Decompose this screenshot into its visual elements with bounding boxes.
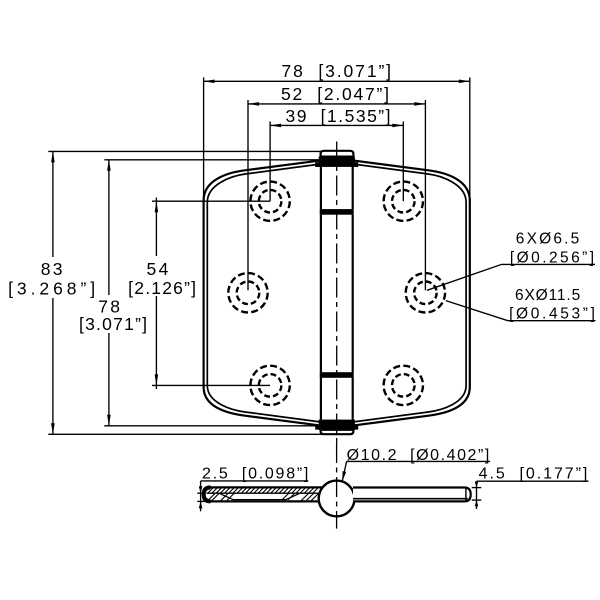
dim 78 width: right arrow	[459, 80, 470, 84]
side view left leaf rolled edge cap	[204, 487, 211, 501]
hinge pin left line	[320, 167, 322, 420]
knuckle bottom dark band	[319, 420, 355, 430]
left leaf outer outline	[204, 160, 322, 425]
hole top-left outer circle	[250, 182, 289, 221]
dim 83 overall: bottom arrow	[51, 423, 55, 434]
hole top-left inner circle	[259, 190, 282, 213]
dim 2.5 thickness: extension tick top	[197, 492, 205, 494]
dim 52: extension line right	[424, 100, 426, 290]
hole mid-left outer circle	[228, 273, 267, 312]
hole top-right inner circle	[392, 190, 415, 213]
dim 39: extension line left	[269, 122, 271, 202]
dim 83 overall: dimension line upper part	[52, 151, 54, 257]
dim 78 height: dimension line lower part	[108, 333, 110, 426]
dim 83 overall: extension line top	[48, 150, 320, 152]
dim 39: right arrow	[392, 124, 403, 128]
dim 4.5 thickness: lower arrow	[475, 500, 479, 506]
knuckle bottom-left leaf tab	[315, 425, 321, 430]
side view vertical centerline	[336, 443, 338, 529]
dim 83 overall: dimension line lower part	[52, 298, 54, 434]
dim 54: bottom arrow	[155, 374, 159, 385]
side view hatching	[208, 488, 319, 501]
svg-text:2.5 [0.098”]: 2.5 [0.098”]	[202, 465, 308, 482]
side view right leaf lower surface line	[353, 498, 468, 500]
dim 2.5 thickness: vertical dimension line	[200, 481, 202, 511]
dim 4.5 thickness: upper arrow	[475, 482, 479, 488]
dim 2.5 thickness: upper arrow	[199, 486, 203, 493]
dim 78 height: extension line bottom	[104, 425, 321, 427]
hole bottom-left outer circle	[250, 366, 289, 405]
svg-text:[Ø0.256”]: [Ø0.256”]	[510, 250, 594, 267]
dim 83 overall: top arrow	[51, 151, 55, 162]
right leaf inner edge line	[352, 164, 466, 422]
hole mid-right inner circle	[414, 282, 437, 305]
dim 4.5 thickness: extension tick top	[472, 487, 482, 489]
dim 52: right arrow	[414, 102, 425, 106]
svg-text:[2.126”]: [2.126”]	[128, 278, 196, 298]
svg-text:39 [1.535”]: 39 [1.535”]	[286, 106, 391, 126]
knuckle top-right leaf tab	[352, 162, 358, 167]
dim 39: left arrow	[270, 124, 281, 128]
dim 78 width: extension line right	[469, 77, 471, 202]
knuckle bottom cap	[321, 430, 354, 434]
hole mid-right outer circle	[406, 273, 445, 312]
dim 2.5 thickness: extension tick bottom	[197, 500, 205, 502]
side view left leaf inner surface line	[207, 492, 320, 494]
dim D10.2 pin: underline	[347, 460, 490, 462]
side view pin circle	[319, 481, 355, 517]
dim 83 overall: extension line bottom	[48, 433, 321, 435]
hole mid-left inner circle	[237, 282, 260, 305]
hole top-right outer circle	[384, 182, 423, 221]
dim 2.5 thickness: lower arrow	[199, 501, 203, 508]
dim 39: extension line right	[402, 122, 404, 202]
dim D10.2 pin: leader line	[342, 461, 346, 481]
hole bottom-left inner circle	[259, 374, 282, 397]
knuckle bottom-right leaf tab	[352, 425, 358, 430]
dim 4.5 thickness: vertical dimension line	[476, 481, 478, 509]
dim 54: dimension line lower part	[155, 296, 157, 389]
svg-text:78 [3.071”]: 78 [3.071”]	[282, 61, 392, 81]
knuckle joint band upper-middle	[320, 209, 354, 215]
svg-text:[3.071”]: [3.071”]	[79, 314, 147, 334]
dim 78 height: dimension line upper part	[108, 160, 110, 295]
dim 4.5 thickness: underline	[477, 480, 589, 482]
pin centerline (main view)	[336, 142, 338, 444]
dim 52: left arrow	[248, 102, 259, 106]
dim 54: extension line bottom	[152, 384, 270, 386]
dim 2.5 thickness: dimension text underline	[201, 480, 309, 482]
left leaf inner edge line	[207, 164, 321, 422]
hole bottom-right outer circle	[384, 366, 423, 405]
svg-text:52 [2.047”]: 52 [2.047”]	[281, 84, 389, 104]
dim 4.5 thickness: extension tick bottom	[472, 499, 482, 501]
callout 6xD6.5: leader line	[427, 264, 595, 290]
knuckle top dark band	[319, 156, 355, 167]
right leaf outer outline	[352, 160, 470, 425]
dim 78 width: dimension line	[204, 80, 470, 82]
dim 78 height: bottom arrow	[107, 415, 111, 426]
hinge pin right line	[352, 167, 354, 420]
hole bottom-right inner circle	[392, 374, 415, 397]
callout 6xD11.5: leader line	[446, 301, 596, 321]
dim D10.2 pin: arrow at circle	[342, 471, 346, 481]
dim 54: top arrow	[155, 201, 159, 212]
dim 52: extension line left	[247, 100, 249, 290]
svg-text:4.5 [0.177”]: 4.5 [0.177”]	[479, 465, 588, 482]
side view right leaf end inner line	[465, 488, 467, 502]
dim 78 width: left arrow	[204, 80, 215, 84]
dim 52: dimension line	[248, 103, 425, 105]
dim 54: extension line top	[152, 200, 270, 202]
side view countersink section profile	[219, 493, 300, 499]
dim 78 width: extension line left	[203, 77, 205, 202]
side view left leaf outline	[204, 487, 322, 501]
knuckle top cap	[321, 151, 354, 157]
knuckle top-left leaf tab	[315, 162, 321, 167]
knuckle joint band lower-middle	[320, 372, 354, 378]
svg-text:[Ø0.453”]: [Ø0.453”]	[509, 305, 595, 322]
dim 78 height: extension line top	[104, 159, 321, 161]
svg-text:6XØ11.5: 6XØ11.5	[515, 287, 580, 304]
dim 54: dimension line upper part	[155, 198, 157, 257]
dim 39: dimension line	[270, 124, 403, 126]
side view right leaf outline	[353, 488, 471, 502]
dim 78 height: top arrow	[107, 160, 111, 171]
